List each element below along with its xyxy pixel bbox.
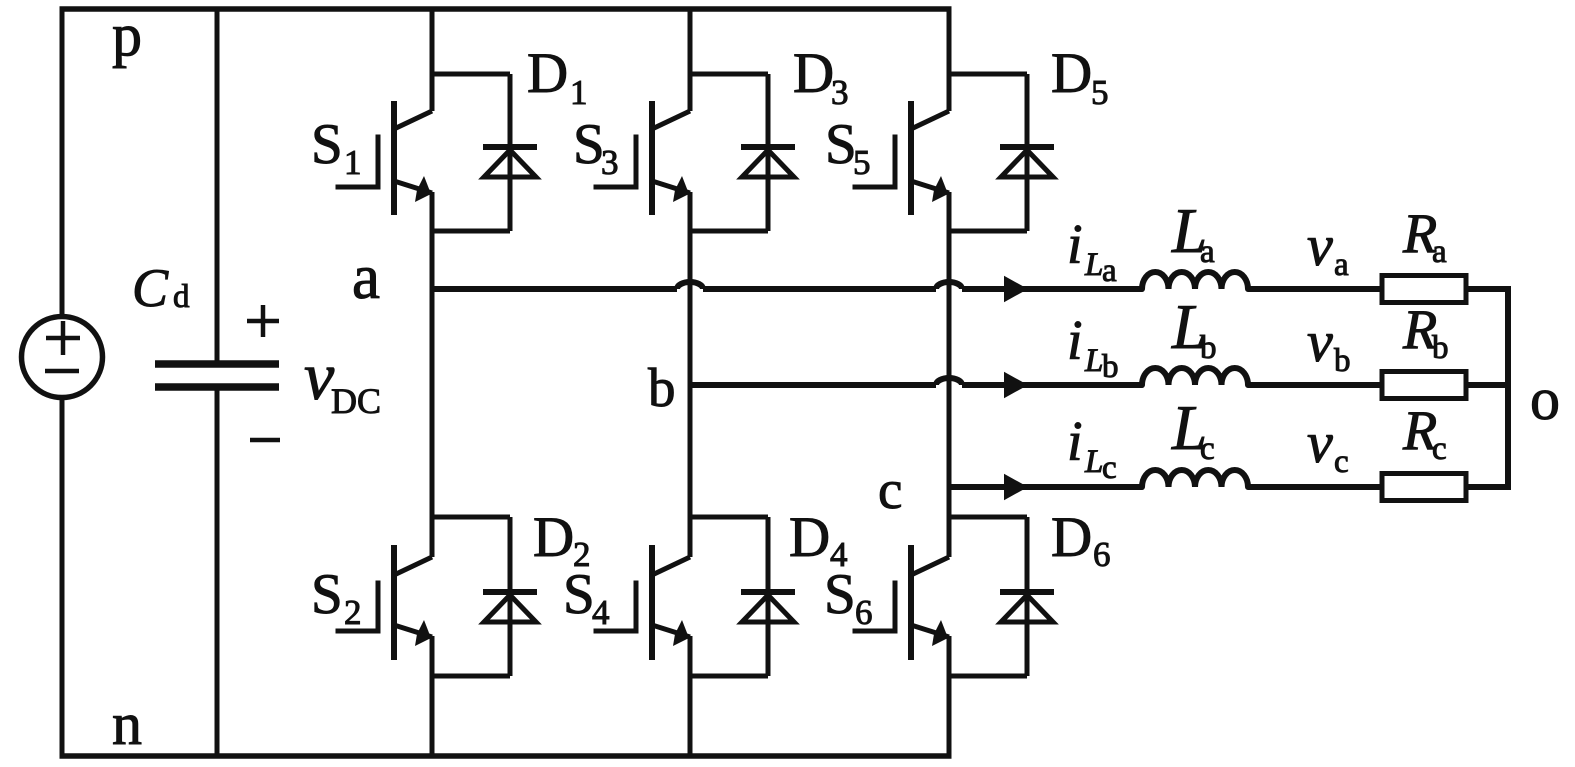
wire: phase b segment resistor to node o [1466, 382, 1511, 388]
S4 body bar [649, 545, 655, 660]
wire: phase a segment to inductor [962, 286, 1142, 292]
svg-text:c: c [1432, 431, 1447, 467]
svg-text:2: 2 [344, 593, 362, 632]
svg-text:c: c [1200, 431, 1215, 467]
S6 body bar [908, 545, 914, 660]
S1 gate lead [338, 137, 378, 187]
diode D3 (anti-parallel) [690, 74, 795, 231]
svg-text:i: i [1067, 310, 1083, 372]
svg-text:D: D [789, 506, 830, 569]
svg-text:3: 3 [831, 73, 849, 112]
wire: top DC rail (node p) [60, 6, 952, 12]
current arrow iLc [1004, 474, 1028, 500]
svg-text:1: 1 [570, 73, 588, 112]
svg-text:S: S [311, 563, 343, 626]
svg-text:1: 1 [344, 143, 362, 182]
svg-text:a: a [1200, 234, 1215, 270]
D4 anode triangle [742, 595, 794, 622]
wire: leg 2 mid segment (phase node) [688, 192, 693, 557]
wire: phase a segment from leg 1 [432, 286, 677, 292]
wire: phase a segment inductor to resistor [1248, 286, 1382, 292]
svg-text:D: D [533, 506, 574, 569]
S5 collector lead [911, 111, 949, 129]
S5 body bar [908, 101, 914, 215]
svg-text:b: b [1102, 349, 1119, 385]
wire: D1 bottom connector [432, 229, 510, 234]
source - polarity mark [45, 369, 79, 374]
wire: phase c segment from leg 3 [949, 484, 1142, 490]
svg-text:i: i [1067, 411, 1083, 473]
transistor S5 (IGBT) [855, 101, 949, 215]
svg-text:c: c [1102, 450, 1117, 486]
wire: capacitor lower lead [215, 389, 220, 756]
svg-text:v: v [1307, 213, 1333, 278]
svg-text:a: a [1102, 253, 1117, 289]
S2 body bar [391, 545, 397, 660]
wire: D2 top connector [432, 515, 510, 520]
svg-text:5: 5 [853, 143, 871, 182]
svg-text:a: a [1334, 247, 1349, 283]
svg-text:S: S [563, 563, 595, 626]
wire: leg 2 upper segment from p rail [688, 7, 693, 112]
D6 anode triangle [1001, 595, 1053, 622]
svg-text:L: L [1084, 444, 1103, 480]
inductor Lc [1142, 470, 1248, 487]
svg-text:n: n [112, 691, 142, 757]
wire: D1 top connector [432, 72, 510, 77]
wire: D4 bottom connector [690, 674, 768, 679]
transistor S6 (IGBT) [855, 545, 949, 660]
svg-text:o: o [1530, 366, 1560, 432]
wire: D2 branch vertical [508, 517, 513, 676]
svg-text:C: C [132, 258, 169, 318]
S2 gate lead [338, 583, 378, 631]
wire: D5 bottom connector [949, 229, 1027, 234]
svg-text:b: b [1334, 343, 1351, 379]
resistor Rc [1382, 474, 1466, 501]
wire: D1 branch vertical [508, 74, 513, 231]
D3 anode triangle [742, 150, 794, 177]
S3 emitter arrowhead [673, 176, 689, 202]
wire: D3 top connector [690, 72, 768, 77]
wire: phase b segment from leg 2 [690, 382, 936, 388]
wire: phase c segment inductor to resistor [1248, 484, 1382, 490]
wire: leg 1 mid segment (phase node) [430, 192, 435, 557]
transistor S3 (IGBT) [596, 101, 690, 215]
S6 collector lead [911, 557, 949, 575]
svg-text:a: a [1432, 234, 1447, 270]
wire: D2 bottom connector [432, 674, 510, 679]
svg-text:c: c [878, 459, 902, 520]
svg-text:6: 6 [855, 593, 873, 632]
S4 emitter lead [652, 625, 690, 637]
resistor Ra [1382, 276, 1466, 303]
svg-text:6: 6 [1093, 535, 1111, 574]
diode D4 (anti-parallel) [690, 517, 795, 676]
wire: D4 top connector [690, 515, 768, 520]
svg-text:S: S [573, 113, 605, 176]
D1 cathode bar [483, 144, 537, 150]
svg-text:3: 3 [601, 143, 619, 182]
wire: leg 3 mid segment (phase node) [947, 192, 952, 557]
svg-text:b: b [1200, 330, 1217, 366]
S4 gate lead [596, 583, 636, 631]
D2 anode triangle [484, 595, 536, 622]
D3 cathode bar [741, 144, 795, 150]
wire: D6 bottom connector [949, 674, 1027, 679]
wire: leg 3 upper segment from p rail [947, 7, 952, 112]
wire: phase c segment resistor to node o [1466, 484, 1511, 490]
wire: D6 top connector [949, 515, 1027, 520]
wire: source negative lead (left vertical lower) [60, 397, 65, 756]
svg-text:v: v [1307, 410, 1333, 475]
wire: D5 top connector [949, 72, 1027, 77]
resistor Rb [1382, 372, 1466, 399]
svg-text:c: c [1334, 444, 1349, 480]
wire: phase b segment inductor to resistor [1248, 382, 1382, 388]
wire: leg 1 lower segment to n rail [430, 636, 435, 759]
wire: phase a segment between hops [703, 286, 936, 292]
wire: phase a hop over leg 3 [936, 282, 962, 289]
Cd bottom plate [155, 383, 279, 391]
D5 cathode bar [1000, 144, 1054, 150]
S4 collector lead [652, 557, 690, 575]
svg-text:d: d [173, 279, 190, 315]
S6 emitter lead [911, 625, 949, 637]
diode D6 (anti-parallel) [949, 517, 1054, 676]
svg-text:D: D [1051, 42, 1092, 105]
D1 anode triangle [484, 150, 536, 177]
wire: D5 branch vertical [1025, 74, 1030, 231]
current arrow iLa [1004, 276, 1028, 302]
svg-text:4: 4 [592, 593, 610, 632]
S5 gate lead [855, 137, 895, 187]
S1 emitter arrowhead [415, 176, 431, 202]
S3 body bar [649, 101, 655, 215]
label - (vDC polarity) [250, 438, 280, 443]
S3 collector lead [652, 111, 690, 129]
wire: leg 1 upper segment from p rail [430, 7, 435, 112]
wire: D6 branch vertical [1025, 517, 1030, 676]
svg-text:S: S [824, 563, 856, 626]
label + (vDC polarity) [247, 305, 279, 337]
diode D2 (anti-parallel) [432, 517, 537, 676]
wire: phase b hop over leg 3 [936, 378, 962, 385]
S2 emitter lead [394, 625, 432, 637]
dc voltage source [22, 317, 103, 398]
svg-text:i: i [1067, 214, 1083, 276]
wire: phase a hop over leg 2 [677, 282, 703, 289]
wire: bottom DC rail (node n) [60, 753, 952, 759]
wire: neutral star connection (node o vertical) [1505, 286, 1511, 490]
svg-text:v: v [1307, 309, 1333, 374]
source circle [22, 317, 103, 398]
current arrow iLb [1004, 372, 1028, 398]
svg-text:DC: DC [331, 381, 381, 421]
wire: phase b segment to inductor [962, 382, 1142, 388]
svg-text:S: S [825, 113, 857, 176]
diode D1 (anti-parallel) [432, 74, 537, 231]
Cd top plate [155, 360, 279, 368]
S2 collector lead [394, 557, 432, 575]
S1 body bar [391, 101, 397, 215]
D4 cathode bar [741, 589, 795, 595]
svg-text:a: a [352, 242, 380, 312]
diode D5 (anti-parallel) [949, 74, 1054, 231]
transistor S1 (IGBT) [338, 101, 432, 215]
wire: D4 branch vertical [766, 517, 771, 676]
S6 emitter arrowhead [932, 620, 948, 646]
svg-text:b: b [1432, 330, 1449, 366]
S4 emitter arrowhead [673, 620, 689, 646]
svg-text:D: D [1051, 506, 1092, 569]
S5 emitter lead [911, 181, 949, 193]
transistor S4 (IGBT) [596, 545, 690, 660]
D6 cathode bar [1000, 589, 1054, 595]
D2 cathode bar [483, 589, 537, 595]
S3 emitter lead [652, 181, 690, 193]
svg-text:L: L [1084, 247, 1103, 283]
svg-text:D: D [793, 42, 834, 105]
svg-text:p: p [112, 2, 142, 68]
D5 anode triangle [1001, 150, 1053, 177]
svg-text:S: S [311, 113, 343, 176]
S1 collector lead [394, 111, 432, 129]
svg-text:D: D [527, 42, 568, 105]
wire: leg 2 lower segment to n rail [688, 636, 693, 759]
svg-text:5: 5 [1091, 73, 1109, 112]
capacitor Cd [155, 364, 279, 387]
wire: D3 branch vertical [766, 74, 771, 231]
wire: capacitor upper lead [215, 9, 220, 362]
S6 gate lead [855, 583, 895, 631]
svg-text:b: b [648, 357, 676, 418]
S5 emitter arrowhead [932, 176, 948, 202]
transistor S2 (IGBT) [338, 545, 432, 660]
S3 gate lead [596, 137, 636, 187]
inductor La [1142, 272, 1248, 289]
S1 emitter lead [394, 181, 432, 193]
inductor Lb [1142, 368, 1248, 385]
S2 emitter arrowhead [415, 620, 431, 646]
svg-text:L: L [1084, 343, 1103, 379]
wire: D3 bottom connector [690, 229, 768, 234]
wire: phase a segment resistor to node o [1466, 286, 1511, 292]
wire: leg 3 lower segment to n rail [947, 636, 952, 759]
wire: source positive lead (left vertical upper) [60, 9, 65, 317]
source + polarity mark [46, 336, 80, 341]
